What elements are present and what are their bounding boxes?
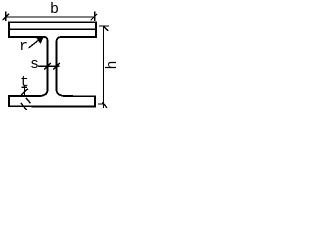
bottom flange top line left + fillet from web left (8, 90, 48, 97)
bottom flange bottom edge (8, 105, 96, 107)
t tick tail (21, 103, 27, 110)
svg-text:s: s (30, 56, 39, 73)
svg-text:h: h (104, 60, 120, 69)
h dimension line (103, 26, 105, 108)
t dimension tail dash (22, 86, 28, 88)
t tick at flange top (21, 89, 28, 95)
top flange left tip edge (8, 21, 10, 37)
top flange bottom line left + fillet into web left (8, 37, 48, 42)
bottom flange left tip edge (8, 95, 10, 107)
h tick bottom (102, 103, 107, 108)
top flange top edge (8, 21, 97, 23)
r arrowhead (37, 36, 45, 44)
s tick at web left edge (44, 63, 51, 70)
b extension line right (94, 12, 96, 22)
s leader line (38, 65, 60, 67)
h extension line top (99, 25, 109, 27)
t dimension line (24, 85, 26, 96)
svg-text:b: b (50, 1, 59, 18)
b dimension line (5, 16, 95, 18)
top flange bottom line right + fillet into web right (57, 37, 98, 42)
t tick at flange bottom (26, 98, 31, 103)
b extension line left (5, 12, 7, 22)
b tick right (91, 14, 98, 21)
bottom flange top line right + fillet from web right (57, 90, 96, 97)
r leader arrow (29, 39, 41, 48)
web left edge (47, 41, 49, 90)
h extension line bottom (98, 103, 104, 105)
svg-text:r: r (19, 38, 28, 55)
s tick at web right edge (53, 63, 60, 70)
bottom flange right tip edge (94, 96, 96, 108)
top flange right tip edge (95, 21, 97, 37)
web right edge (56, 41, 58, 90)
b tick left (3, 14, 10, 20)
h tick top (104, 27, 108, 31)
top flange middle line (8, 28, 97, 30)
